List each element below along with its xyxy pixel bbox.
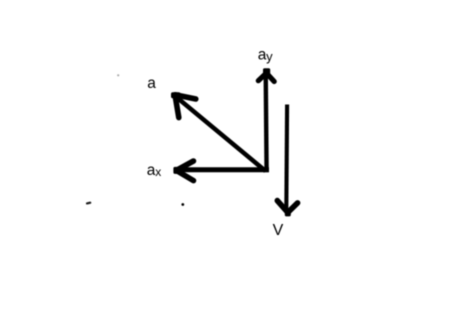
vector V arrowhead [277, 201, 297, 217]
label a [147, 75, 156, 92]
svg-text:x: x [155, 165, 161, 179]
vector a_y shaft (vertical line up from origin) [264, 72, 269, 173]
vector V shaft (vertical line down) [284, 105, 289, 213]
stray dot [181, 203, 184, 206]
vector a shaft (diagonal line) [175, 96, 266, 172]
label a_x [147, 162, 162, 179]
faint gray speck [117, 74, 119, 76]
svg-text:a: a [147, 75, 156, 92]
vector a_x arrowhead [173, 161, 193, 181]
svg-text:V: V [273, 222, 284, 239]
small stray dash [87, 202, 90, 205]
label V [273, 222, 284, 239]
svg-text:y: y [266, 49, 273, 64]
vector a arrowhead [171, 92, 196, 117]
vector a_x shaft (horizontal line left from origin) [177, 167, 269, 172]
label a_y [258, 47, 273, 64]
vector a_y arrowhead [258, 68, 274, 81]
